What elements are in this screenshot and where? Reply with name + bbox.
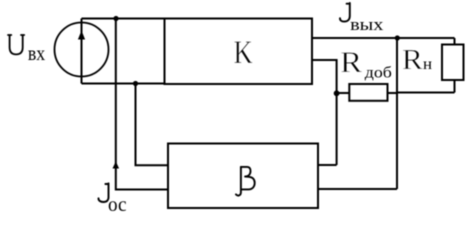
wire Rdob right [388,92,397,94]
wire bottom from source to K [82,83,165,85]
svg-text:вх: вх [28,43,46,66]
wire source vertical stem [81,19,83,84]
wire K output lower down to beta upper-right [312,60,337,165]
wire bottom-right horizontal Rn to node [397,92,455,94]
wire Rdob left [337,92,349,94]
arrow head Joc current [113,161,120,168]
label beta [236,167,255,196]
wire top from source to K [82,18,165,20]
wire beta lower-right to vertical [318,188,397,190]
label U vx [8,35,24,54]
wire Rn bottom stub [454,80,456,93]
wire K output upper (Jvyh) [312,37,455,39]
svg-text:доб: доб [365,63,392,81]
resistor Rdob [349,84,387,101]
amplifier block K [165,19,313,85]
wire into beta right upper [318,164,337,166]
node dot on Jvyh wire [395,35,400,40]
wire feedback left with corner to beta (node Joc) [116,19,168,190]
node dot on bottom wire [133,81,138,86]
label J vyh [340,3,350,22]
node dot on top wire [113,16,118,21]
node dot at Rdob left [334,90,340,96]
svg-text:K: K [233,35,253,71]
label J oc [98,183,108,202]
svg-text:н: н [423,54,432,73]
source arrow head [78,31,85,40]
voltage source U vx circle [55,23,109,77]
wire vertical from Jvyh node down [396,38,398,189]
svg-text:R: R [402,43,424,75]
wire from bottom node down to beta upper-left input [136,84,169,166]
wire Rn top stub [454,38,456,45]
svg-text:вых: вых [350,16,384,35]
resistor Rn [442,45,464,81]
svg-text:R: R [340,46,362,79]
feedback block beta [168,144,318,209]
svg-text:ос: ос [108,195,127,216]
